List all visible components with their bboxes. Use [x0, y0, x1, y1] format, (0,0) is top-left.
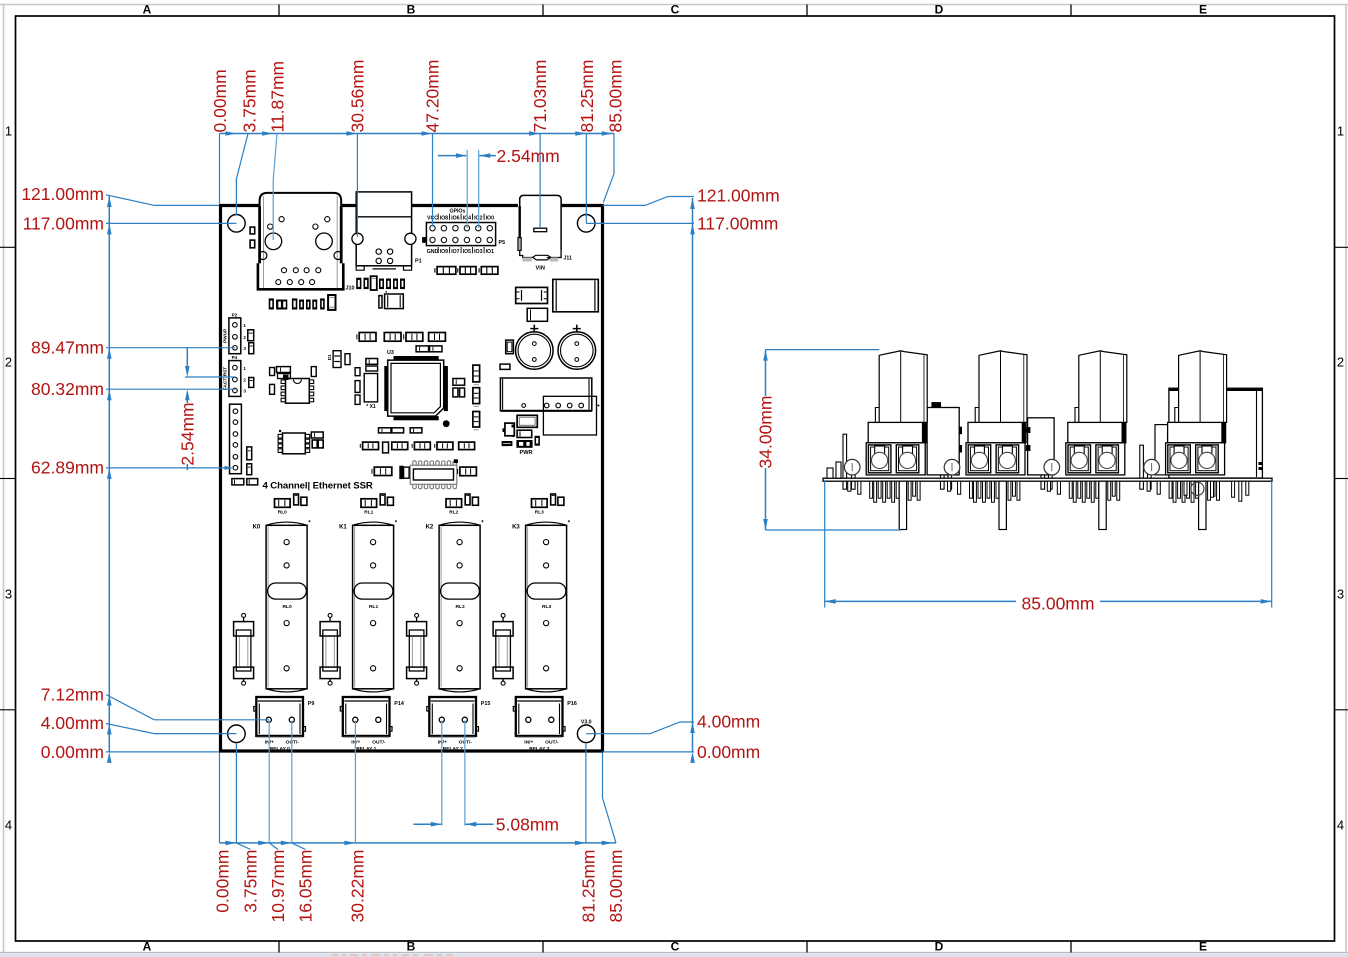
svg-text:RL1: RL1	[364, 509, 373, 515]
svg-text:P5: P5	[499, 240, 506, 246]
svg-text:1: 1	[243, 366, 246, 371]
svg-text:B: B	[407, 940, 416, 954]
svg-text:C: C	[671, 940, 680, 954]
svg-text:D1: D1	[327, 354, 332, 360]
svg-text:RL1: RL1	[369, 604, 379, 610]
svg-text:5.08mm: 5.08mm	[496, 814, 559, 834]
passives right of U3	[453, 379, 465, 386]
relay K0	[266, 525, 307, 689]
footprints below GPIO header	[437, 267, 456, 275]
svg-text:RL3: RL3	[535, 509, 544, 515]
bottom leader 16.05mm	[291, 721, 293, 843]
svg-text:0.00mm: 0.00mm	[213, 850, 233, 913]
svg-text:11.87mm: 11.87mm	[268, 61, 288, 133]
mounting hole top-right	[577, 215, 595, 233]
svg-text:K3: K3	[512, 525, 520, 531]
svg-text:80.32mm: 80.32mm	[31, 379, 104, 399]
svg-text:PWR: PWR	[519, 450, 532, 456]
svg-text:IO8: IO8	[440, 216, 448, 222]
svg-text:4: 4	[5, 818, 12, 833]
PCB board outline	[219, 204, 260, 207]
terminal block P14	[343, 697, 390, 736]
svg-text:RL0: RL0	[278, 509, 287, 515]
svg-text:J11: J11	[564, 255, 572, 261]
svg-text:J10: J10	[346, 286, 355, 292]
footprint row below U3	[363, 442, 379, 450]
svg-text:IO5: IO5	[463, 249, 471, 255]
left leader 62.89mm	[106, 467, 227, 469]
svg-text:62.89mm: 62.89mm	[31, 458, 104, 478]
passives right of headers	[248, 330, 254, 341]
left leader 7.12mm	[106, 695, 269, 720]
svg-text:A: A	[143, 3, 152, 17]
passives around U1	[277, 367, 291, 373]
5.08mm bottom dimension	[441, 721, 443, 826]
svg-text:3.75mm: 3.75mm	[241, 850, 261, 913]
svg-text:K1: K1	[339, 525, 347, 531]
2.54mm left dimension	[186, 348, 188, 366]
svg-text:3: 3	[243, 389, 246, 394]
svg-text:A: A	[143, 940, 152, 954]
mounting hole top-left	[228, 215, 246, 233]
svg-text:VIN: VIN	[536, 266, 545, 272]
PWR cluster	[517, 415, 537, 427]
svg-text:P2: P2	[232, 312, 238, 317]
right leader 0.00mm	[603, 751, 695, 753]
svg-text:4: 4	[1337, 818, 1344, 833]
bottom leader 10.97mm	[268, 721, 270, 843]
svg-text:3: 3	[1337, 587, 1344, 602]
svg-text:RELAY 3: RELAY 3	[529, 746, 549, 752]
svg-text:2: 2	[243, 335, 246, 340]
svg-text:GPIOs: GPIOs	[449, 208, 465, 214]
footprint top right	[516, 287, 548, 303]
svg-text:K0: K0	[253, 525, 261, 531]
left leader 4.00mm	[106, 724, 236, 734]
top leader 47.20mm	[432, 134, 434, 227]
footprints flanking SOIC-16	[374, 467, 392, 475]
side view relay channel 3	[1168, 422, 1226, 442]
side view relay channel 0	[868, 422, 926, 442]
svg-text:P1: P1	[415, 259, 422, 265]
relay K1	[353, 525, 394, 689]
side view cap between ch1 ch2	[927, 408, 959, 475]
svg-text:117.00mm: 117.00mm	[697, 214, 778, 234]
svg-text:IO1: IO1	[486, 249, 494, 255]
relay driver footprint RL2	[446, 499, 462, 508]
85.00mm side view dimension	[824, 481, 826, 608]
svg-text:4.00mm: 4.00mm	[41, 713, 104, 733]
fuse F0	[242, 613, 246, 617]
side view pins channel 3	[1169, 481, 1172, 498]
footprint row above U3	[359, 333, 376, 342]
svg-text:V3.0: V3.0	[581, 720, 592, 726]
svg-text:RELAY 1: RELAY 1	[356, 746, 376, 752]
svg-text:P16: P16	[567, 701, 577, 707]
relay K2	[439, 525, 480, 689]
relay driver footprint RL0	[275, 499, 291, 508]
svg-text:30.22mm: 30.22mm	[348, 850, 368, 923]
mounting hole bottom-left	[228, 725, 246, 743]
relay driver footprint RL1	[361, 499, 377, 508]
svg-text:OUT/-: OUT/-	[372, 739, 386, 745]
passive pair above U3	[416, 346, 429, 352]
left leader 89.47mm	[106, 347, 235, 349]
right leader 4.00mm	[586, 722, 694, 734]
top leader 81.25mm	[585, 134, 587, 224]
relay K3	[526, 525, 567, 689]
connector P1 body	[356, 192, 411, 266]
svg-text:IO9: IO9	[440, 249, 448, 255]
left dimension chain line	[108, 196, 110, 752]
svg-text:RELAY 2: RELAY 2	[443, 746, 463, 752]
svg-text:E: E	[1199, 940, 1207, 954]
svg-text:B: B	[407, 3, 416, 17]
side view extra pins below board right	[1232, 481, 1235, 497]
svg-text:RL2: RL2	[449, 509, 458, 515]
svg-text:IO7: IO7	[451, 249, 459, 255]
top leader 30.56mm	[356, 134, 358, 238]
svg-text:PWUP: PWUP	[223, 328, 229, 343]
svg-text:K2: K2	[426, 525, 434, 531]
svg-text:16.05mm: 16.05mm	[296, 850, 316, 923]
svg-text:IN/+: IN/+	[524, 739, 533, 745]
svg-text:2: 2	[1337, 355, 1344, 370]
terminal block P9	[256, 697, 303, 736]
svg-text:85.00mm: 85.00mm	[606, 850, 626, 923]
terminal block P15	[429, 697, 476, 736]
svg-text:121.00mm: 121.00mm	[697, 186, 780, 206]
svg-text:3: 3	[5, 587, 12, 602]
side view circle below board ch4	[1191, 482, 1204, 495]
svg-text:85.00mm: 85.00mm	[606, 60, 626, 133]
svg-text:D: D	[935, 3, 944, 17]
passives right of U2	[311, 432, 323, 438]
svg-text:IO3: IO3	[474, 249, 482, 255]
microcontroller U3 QFP	[394, 356, 439, 360]
passives left of J10	[250, 227, 255, 234]
svg-text:10.97mm: 10.97mm	[268, 850, 288, 923]
svg-text:P14: P14	[394, 701, 404, 707]
right dimension chain line	[692, 198, 694, 752]
svg-text:2.54mm: 2.54mm	[178, 402, 198, 465]
svg-text:121.00mm: 121.00mm	[21, 184, 104, 204]
crystal X1	[364, 374, 377, 402]
side view box left of ch4	[1155, 425, 1172, 475]
terminal block P16	[516, 697, 563, 736]
left leader 117.00mm	[106, 222, 236, 224]
svg-text:P15: P15	[481, 701, 491, 707]
svg-text:81.25mm: 81.25mm	[579, 850, 599, 923]
svg-text:4.00mm: 4.00mm	[697, 712, 760, 732]
svg-text:RL0: RL0	[282, 604, 292, 610]
mounting hole bottom-right V3.0	[577, 725, 595, 743]
passive row below U3	[379, 428, 392, 433]
bottom leader 85.00mm	[603, 753, 617, 843]
34.00mm side view dimension	[765, 350, 767, 396]
2.54mm top dimension	[466, 150, 468, 228]
svg-text:85.00mm: 85.00mm	[1022, 593, 1095, 613]
small rect below	[527, 308, 547, 321]
svg-text:0.00mm: 0.00mm	[210, 69, 230, 132]
bottom leader 30.22mm	[354, 721, 356, 843]
driver chip SOIC-16	[410, 465, 457, 484]
ethernet jack J10	[260, 193, 342, 215]
svg-text:IO6: IO6	[451, 216, 459, 222]
right leader 117.00mm	[586, 222, 694, 224]
svg-text:7.12mm: 7.12mm	[41, 685, 104, 705]
left leader 121.00mm	[106, 195, 219, 206]
rect component top right	[553, 279, 599, 311]
svg-text:30.56mm: 30.56mm	[348, 60, 368, 133]
svg-text:IO0: IO0	[486, 216, 494, 222]
svg-text:89.47mm: 89.47mm	[31, 338, 104, 358]
svg-text:71.03mm: 71.03mm	[530, 60, 550, 133]
svg-text:P9: P9	[308, 701, 315, 707]
bottom leader 81.25mm	[585, 743, 587, 843]
svg-text:1: 1	[5, 124, 12, 139]
bottom leader 3.75mm	[235, 743, 237, 843]
svg-text:OUT/-: OUT/-	[545, 739, 559, 745]
svg-text:D: D	[935, 940, 944, 954]
side view relay channel 1	[968, 422, 1026, 442]
svg-text:2.54mm: 2.54mm	[497, 146, 560, 166]
parts left of SOIC-16	[399, 466, 403, 479]
svg-text:0.00mm: 0.00mm	[697, 742, 760, 762]
top leader 0.00mm	[219, 134, 221, 204]
svg-text:E: E	[1199, 3, 1207, 17]
side view board cross-section	[823, 478, 1272, 481]
diode D1	[333, 351, 341, 368]
left leader 0.00mm	[106, 751, 219, 753]
electrolytic capacitor C2	[558, 332, 596, 370]
bottom leader 0.00mm	[219, 753, 221, 843]
svg-text:117.00mm: 117.00mm	[23, 214, 104, 234]
bottom dimension chain line	[220, 842, 617, 844]
svg-text:U3: U3	[387, 350, 394, 356]
passives left of X1	[355, 368, 360, 376]
passives above X1	[366, 359, 378, 365]
sheet border	[0, 4, 1348, 6]
via dot near U3	[443, 420, 450, 427]
svg-text:34.00mm: 34.00mm	[756, 396, 776, 469]
svg-text:OUT/-: OUT/-	[286, 739, 300, 745]
top leader 71.03mm	[539, 134, 541, 229]
right leader 121.00mm	[603, 197, 695, 206]
side view power connector right	[1169, 388, 1263, 478]
svg-text:1: 1	[243, 323, 246, 328]
top leader 11.87mm	[273, 134, 277, 241]
svg-text:P4: P4	[232, 355, 238, 360]
header P4 FACT RST	[229, 361, 241, 397]
top leader 85.00mm	[603, 134, 614, 203]
svg-text:3.75mm: 3.75mm	[240, 69, 260, 132]
fuse F2	[415, 613, 419, 617]
left leader 80.32mm	[106, 388, 235, 390]
side view pins between channels background	[843, 434, 847, 489]
svg-text:2: 2	[243, 378, 246, 383]
svg-text:47.20mm: 47.20mm	[423, 60, 443, 133]
GPIO header P5	[426, 223, 495, 246]
side view left edge small parts	[827, 468, 833, 478]
top dimension chain line	[220, 133, 615, 135]
passive pair bottom left	[232, 479, 244, 485]
passives left of capacitors	[506, 340, 514, 354]
relay driver footprint RL3	[532, 499, 548, 508]
svg-text:81.25mm: 81.25mm	[577, 60, 597, 133]
side view relay channel 2	[1068, 422, 1126, 442]
fuse F3	[501, 613, 505, 617]
terminal footprint block	[543, 396, 596, 435]
passive row below P1	[356, 278, 361, 289]
svg-text:RL2: RL2	[455, 604, 465, 610]
chip U2 SOIC-8	[283, 433, 306, 454]
side view pins channel 1	[970, 481, 973, 498]
header P2 PWUP	[229, 318, 241, 354]
side view component between ch2 ch3	[1028, 418, 1055, 475]
svg-text:* X1: * X1	[366, 404, 376, 410]
top leader 3.75mm	[236, 134, 248, 216]
side view pins channel 2	[1069, 481, 1072, 498]
svg-text:0.00mm: 0.00mm	[41, 742, 104, 762]
svg-text:1: 1	[1337, 124, 1344, 139]
svg-text:RL3: RL3	[542, 604, 552, 610]
svg-text:C: C	[671, 3, 680, 17]
power jack J11	[520, 195, 561, 250]
chip U1 SOIC-8	[286, 379, 310, 404]
svg-text:FACT RST: FACT RST	[223, 367, 229, 391]
svg-text:4 Channel| Ethernet SSR: 4 Channel| Ethernet SSR	[263, 480, 373, 491]
fuse F1	[328, 613, 332, 617]
inductor below P1	[379, 296, 382, 308]
svg-text:RELAY 0: RELAY 0	[270, 746, 290, 752]
svg-text:GND: GND	[427, 249, 439, 255]
svg-text:3: 3	[243, 346, 246, 351]
serial header 6-pin	[230, 404, 242, 474]
power transformer block	[500, 378, 591, 411]
side view pins channel 0	[870, 481, 873, 498]
vertical footprints right of U3	[473, 365, 480, 382]
svg-text:2: 2	[5, 355, 12, 370]
electrolytic capacitor C1	[516, 332, 554, 370]
passive row below J10	[269, 298, 274, 309]
